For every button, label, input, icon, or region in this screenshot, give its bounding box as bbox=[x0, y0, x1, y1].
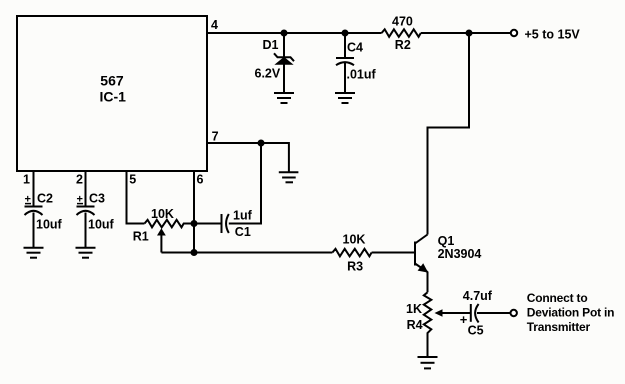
label +5 to 15V bbox=[525, 27, 581, 41]
svg-text:1K: 1K bbox=[406, 302, 422, 316]
pin 2 label bbox=[76, 173, 83, 187]
wire pin1 bbox=[33, 172, 35, 206]
terminal output circle bbox=[511, 310, 517, 316]
wiper arrow R4 bbox=[435, 309, 471, 317]
resistor R3 bbox=[332, 249, 371, 256]
svg-text:C2: C2 bbox=[37, 192, 53, 206]
ground pin7 bbox=[279, 172, 299, 182]
svg-text:Transmitter: Transmitter bbox=[527, 320, 591, 334]
wire pin4 to supply rail bbox=[208, 32, 511, 34]
label C4 bbox=[347, 40, 363, 54]
svg-text:4: 4 bbox=[211, 18, 218, 32]
label 1K bbox=[406, 302, 422, 316]
svg-text:D1: D1 bbox=[263, 38, 279, 52]
wire supply to collector bbox=[428, 33, 470, 235]
pin 7 label bbox=[212, 130, 219, 144]
svg-text:10K: 10K bbox=[151, 207, 174, 221]
label 10K R3 bbox=[343, 232, 366, 246]
svg-text:+: + bbox=[460, 312, 468, 327]
label R1 bbox=[133, 230, 149, 244]
wire R3 to base bbox=[372, 252, 414, 254]
resistor R4 bbox=[424, 292, 432, 356]
resistor R1 bbox=[145, 220, 195, 228]
svg-text:C1: C1 bbox=[235, 225, 251, 239]
svg-text:470: 470 bbox=[392, 14, 413, 28]
svg-text:C4: C4 bbox=[347, 40, 363, 54]
svg-text:+5 to 15V: +5 to 15V bbox=[525, 27, 581, 41]
svg-text:7: 7 bbox=[212, 130, 219, 144]
pin 1 label bbox=[23, 173, 30, 187]
capacitor C1 bbox=[194, 214, 229, 233]
label R2 bbox=[395, 38, 411, 52]
svg-text:R1: R1 bbox=[133, 230, 149, 244]
node junction D1 top bbox=[281, 30, 288, 37]
wire D1 anode lead bbox=[283, 33, 285, 57]
label R3 bbox=[347, 260, 363, 274]
svg-text:C3: C3 bbox=[89, 192, 105, 206]
label 10K R1 bbox=[151, 207, 174, 221]
wire C1 right branch bbox=[229, 143, 261, 224]
svg-text:4.7uf: 4.7uf bbox=[463, 289, 493, 303]
label 1uf bbox=[233, 208, 253, 222]
label D1 bbox=[263, 38, 279, 52]
svg-text:5: 5 bbox=[129, 173, 136, 187]
label 10uf C3 bbox=[88, 218, 115, 232]
capacitor C2 bbox=[25, 207, 43, 248]
transistor Q1 bbox=[415, 235, 428, 273]
wire emitter to R4 bbox=[427, 272, 429, 293]
label 470 bbox=[392, 14, 413, 28]
svg-text:R4: R4 bbox=[407, 318, 423, 332]
label 567 IC-1 bbox=[100, 73, 127, 105]
label 6.2V bbox=[255, 66, 281, 80]
label 10uf C2 bbox=[36, 218, 63, 232]
node junction pin7 bbox=[258, 140, 265, 147]
node junction R1 pin6 bbox=[191, 220, 198, 227]
svg-text:2N3904: 2N3904 bbox=[438, 247, 482, 261]
ground C2 bbox=[24, 248, 44, 258]
node junction C4 top bbox=[342, 30, 349, 37]
resistor R2 bbox=[382, 29, 421, 37]
ground C3 bbox=[76, 248, 96, 258]
svg-text:.01uf: .01uf bbox=[347, 68, 377, 82]
svg-text:Deviation Pot in: Deviation Pot in bbox=[527, 305, 614, 319]
label C5 bbox=[468, 324, 484, 338]
plus mark C5 bbox=[460, 312, 468, 327]
label 4.7uf bbox=[463, 289, 493, 303]
svg-text:R3: R3 bbox=[347, 260, 363, 274]
svg-text:10uf: 10uf bbox=[36, 218, 63, 232]
svg-text:1: 1 bbox=[23, 173, 30, 187]
wire pin2 bbox=[85, 172, 87, 206]
wire pin5 bbox=[127, 172, 145, 224]
svg-text:1uf: 1uf bbox=[233, 208, 253, 222]
svg-text:10K: 10K bbox=[343, 232, 366, 246]
wire pin7 bbox=[208, 143, 289, 172]
plus mark C2 bbox=[25, 194, 31, 206]
svg-text:567: 567 bbox=[100, 73, 124, 89]
capacitor C5 bbox=[471, 304, 511, 323]
zener diode D1 bbox=[274, 53, 294, 92]
plus mark C3 bbox=[77, 194, 83, 206]
label 2N3904 bbox=[438, 247, 482, 261]
node junction pin6 lower bbox=[191, 249, 198, 256]
svg-text:R2: R2 bbox=[395, 38, 411, 52]
pin 6 label bbox=[197, 173, 204, 187]
label C2 bbox=[37, 192, 53, 206]
label R4 bbox=[407, 318, 423, 332]
svg-text:2: 2 bbox=[76, 173, 83, 187]
svg-text:Q1: Q1 bbox=[438, 234, 455, 248]
pin 4 label bbox=[211, 18, 218, 32]
terminal +V circle bbox=[511, 30, 517, 36]
wire wiper to R3 bbox=[161, 252, 332, 254]
IC U1 body 567 bbox=[17, 16, 207, 171]
label connect note bbox=[527, 291, 614, 334]
label .01uf bbox=[347, 68, 377, 82]
ground D1 bbox=[274, 93, 294, 103]
label Q1 bbox=[438, 234, 455, 248]
svg-text:Connect to: Connect to bbox=[527, 291, 588, 305]
svg-text:C5: C5 bbox=[468, 324, 484, 338]
capacitor C3 bbox=[77, 207, 95, 248]
ground R4 bbox=[418, 357, 438, 368]
svg-text:IC-1: IC-1 bbox=[100, 89, 127, 105]
label C3 bbox=[89, 192, 105, 206]
pin 5 label bbox=[129, 173, 136, 187]
capacitor C4 bbox=[336, 33, 354, 93]
ground C4 bbox=[335, 93, 355, 103]
svg-text:6: 6 bbox=[197, 173, 204, 187]
label C1 bbox=[235, 225, 251, 239]
svg-text:10uf: 10uf bbox=[88, 218, 115, 232]
svg-text:6.2V: 6.2V bbox=[255, 66, 281, 80]
wire pin6 bbox=[193, 172, 195, 253]
node junction collector feed bbox=[466, 30, 473, 37]
wiper arrow R1 bbox=[157, 228, 166, 252]
